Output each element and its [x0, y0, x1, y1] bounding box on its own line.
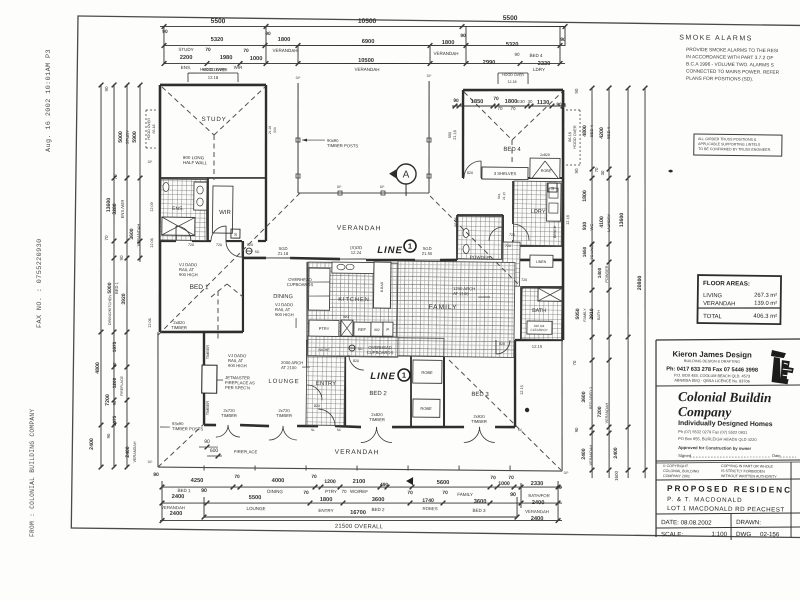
svg-text:FAX NO. : 0755220930: FAX NO. : 0755220930	[36, 238, 44, 328]
svg-text:1:100: 1:100	[712, 531, 728, 538]
svg-text:500: 500	[273, 127, 277, 133]
bath tub box	[527, 321, 552, 334]
svg-text:4100: 4100	[599, 216, 605, 228]
svg-text:90: 90	[106, 433, 111, 438]
svg-text:900 HIGH: 900 HIGH	[179, 272, 198, 277]
svg-text:DP: DP	[148, 460, 154, 464]
svg-text:VERANDAH: VERANDAH	[434, 51, 459, 56]
svg-text:406.3 m²: 406.3 m²	[753, 314, 777, 320]
svg-text:70: 70	[594, 167, 599, 172]
svg-text:HOOD OVER: HOOD OVER	[202, 67, 227, 72]
svg-text:DRAWN:: DRAWN:	[736, 519, 761, 526]
svg-text:TIMBER POSTS: TIMBER POSTS	[327, 143, 358, 148]
page border	[71, 16, 800, 538]
svg-text:1400: 1400	[597, 267, 602, 278]
verandah edge west	[156, 332, 160, 467]
hood over bracket west study	[144, 110, 147, 148]
svg-text:FAMILY: FAMILY	[428, 304, 457, 311]
svg-text:SL: SL	[311, 428, 315, 432]
wall laundry south	[513, 245, 563, 246]
floor areas box	[697, 275, 781, 324]
svg-text:TIMBER: TIMBER	[171, 325, 187, 330]
separator under kieron block	[656, 383, 800, 388]
svg-text:90: 90	[560, 37, 566, 43]
svg-text:1200: 1200	[112, 377, 117, 388]
top dimension row 2	[164, 40, 565, 51]
section marker A circle	[396, 164, 416, 184]
svg-text:3920: 3920	[121, 293, 127, 304]
svg-text:70: 70	[311, 474, 317, 480]
svg-text:267.3 m²: 267.3 m²	[754, 293, 777, 299]
svg-text:DP: DP	[296, 76, 302, 80]
svg-text:7200: 7200	[597, 406, 603, 417]
dimension chain vertical connectors bottom	[161, 481, 162, 521]
svg-text:COLONIAL BUILDING: COLONIAL BUILDING	[663, 469, 699, 473]
svg-text:1600: 1600	[614, 470, 619, 481]
svg-text:90: 90	[556, 485, 562, 491]
tiled floor laundry/lobby	[513, 181, 562, 246]
svg-text:7G LINEN: 7G LINEN	[590, 242, 594, 259]
svg-text:90: 90	[162, 29, 168, 35]
wall lounge west	[203, 332, 206, 425]
svg-text:1800: 1800	[582, 190, 588, 202]
tiled floor gallery strip	[345, 337, 444, 356]
svg-text:90: 90	[574, 88, 579, 94]
svg-text:820: 820	[314, 404, 320, 408]
svg-text:3 SHELVES: 3 SHELVES	[494, 171, 517, 176]
separator under colonial block	[656, 458, 800, 463]
svg-text:1675: 1675	[112, 341, 117, 352]
svg-text:2400: 2400	[531, 516, 544, 522]
svg-text:21.18: 21.18	[278, 251, 289, 256]
door bed4	[464, 161, 481, 178]
svg-text:DINING: DINING	[267, 489, 283, 494]
svg-text:12.09: 12.09	[150, 202, 154, 212]
svg-text:TOTAL: TOTAL	[703, 314, 723, 320]
svg-text:HOOD OVER: HOOD OVER	[147, 118, 151, 140]
wall bath south	[515, 339, 563, 340]
svg-text:4000: 4000	[272, 478, 285, 484]
svg-text:BUILDING DESIGN & DRAFTING: BUILDING DESIGN & DRAFTING	[684, 359, 740, 364]
svg-text:AT 2100: AT 2100	[453, 291, 469, 296]
svg-text:5500: 5500	[249, 495, 262, 501]
svg-text:ENS.: ENS.	[172, 206, 184, 212]
svg-text:VERANDAH: VERANDAH	[133, 441, 137, 462]
svg-text:VERANDAH: VERANDAH	[525, 509, 549, 514]
verandah edge south	[158, 466, 562, 473]
svg-text:Kieron James Design: Kieron James Design	[672, 350, 752, 360]
svg-text:Colonial Buildin: Colonial Buildin	[678, 389, 772, 405]
svg-text:PROPOSED RESIDENC: PROPOSED RESIDENC	[667, 484, 792, 495]
smoke alarm S box wir	[231, 229, 240, 238]
svg-text:1: 1	[408, 242, 412, 251]
tiled floor kitchen lower strip	[308, 336, 398, 357]
svg-text:21.15: 21.15	[502, 192, 506, 200]
svg-text:5500: 5500	[211, 18, 226, 25]
svg-text:POWDER: POWDER	[470, 255, 491, 260]
svg-text:2400: 2400	[613, 447, 619, 458]
svg-text:FAMILY: FAMILY	[583, 308, 587, 322]
smoke detector SD kitchen	[349, 345, 355, 351]
title block top border	[656, 337, 800, 342]
wall west outer (study/ens/bed1)	[157, 85, 163, 332]
bottom dimension row 2	[162, 498, 562, 508]
svg-text:21.18: 21.18	[453, 130, 457, 140]
title block left border	[653, 340, 658, 537]
svg-text:SD: SD	[255, 250, 260, 254]
svg-text:ENS./WIR: ENS./WIR	[120, 200, 125, 219]
verandah roof edge top-left	[297, 83, 300, 193]
linen cupboard	[530, 255, 553, 267]
svg-text:TIMBER: TIMBER	[206, 345, 210, 360]
wall bath north	[521, 286, 563, 287]
svg-text:3600: 3600	[372, 497, 385, 503]
svg-text:3600: 3600	[581, 391, 587, 402]
top dimension row 3	[164, 58, 565, 69]
ens wc	[163, 182, 169, 191]
bottom dimension row 3 (16700)	[204, 513, 517, 521]
svg-text:LINE: LINE	[370, 371, 396, 382]
svg-text:5500: 5500	[503, 15, 518, 22]
svg-text:70: 70	[205, 47, 211, 53]
entry front door	[318, 409, 335, 426]
svg-text:90: 90	[204, 439, 210, 445]
svg-text:820: 820	[467, 171, 473, 175]
bed4 shelves box	[482, 167, 528, 180]
powder wc and basin	[463, 228, 469, 237]
kitchen fridge space	[354, 322, 371, 336]
svg-text:90: 90	[112, 400, 117, 405]
svg-text:CUPBOARDS: CUPBOARDS	[287, 282, 314, 287]
door ens	[176, 226, 191, 241]
left dimension chain lines	[96, 84, 106, 468]
svg-text:1650: 1650	[582, 246, 587, 257]
svg-text:7200: 7200	[105, 394, 111, 406]
fireplace box	[202, 365, 217, 393]
tiled floor hall near linen	[503, 242, 521, 286]
svg-text:12.06: 12.06	[150, 238, 154, 248]
svg-text:Signed: Signed	[678, 453, 692, 458]
svg-text:DINING/KITCHEN: DINING/KITCHEN	[108, 295, 112, 326]
svg-text:2400: 2400	[89, 438, 95, 450]
svg-text:70: 70	[243, 48, 249, 54]
bottom arrow marker	[406, 477, 413, 485]
svg-text:DP: DP	[427, 74, 433, 78]
hood over bracket east	[566, 109, 580, 111]
door bed1	[226, 241, 242, 257]
svg-text:70: 70	[490, 475, 496, 481]
bed4 robe	[530, 158, 560, 178]
svg-text:TIMBER: TIMBER	[276, 413, 292, 418]
svg-text:ENS.: ENS.	[181, 65, 192, 70]
svg-text:TIMBER: TIMBER	[369, 417, 385, 422]
svg-text:WITHOUT WRITTEN AUTHORITY: WITHOUT WRITTEN AUTHORITY	[721, 474, 777, 479]
svg-text:LOUNGE: LOUNGE	[268, 379, 299, 385]
svg-text:5320: 5320	[506, 42, 519, 48]
dimension chain vertical connectors top	[162, 26, 165, 64]
svg-text:WC: WC	[589, 224, 594, 231]
svg-text:70: 70	[493, 96, 499, 102]
roof valley through bed3 to corner	[448, 360, 563, 470]
svg-text:4800: 4800	[582, 125, 588, 137]
svg-text:139.0 m²: 139.0 m²	[754, 301, 777, 307]
kieron james logo glyph	[771, 350, 794, 384]
svg-text:POWDER: POWDER	[605, 265, 609, 282]
separator above proposed residence	[656, 477, 800, 482]
svg-text:90: 90	[574, 427, 579, 432]
svg-text:1850: 1850	[471, 99, 484, 105]
tiled floor kitchen	[307, 262, 398, 337]
verandah roof edge top-middle	[298, 191, 429, 194]
glass door panes on front wall	[266, 257, 290, 260]
svg-text:2400: 2400	[170, 511, 183, 517]
bed2 robe lower	[413, 399, 440, 417]
wall house east lower (bed3)	[514, 340, 516, 427]
tiled floor family	[397, 261, 515, 358]
wall study east	[264, 85, 268, 241]
kitchen pantry2	[383, 322, 393, 336]
svg-text:12.18: 12.18	[508, 80, 517, 84]
right dimension chain lines	[587, 88, 597, 478]
svg-text:3600: 3600	[474, 499, 487, 505]
svg-text:SCALE:: SCALE:	[661, 531, 683, 538]
svg-text:4250: 4250	[191, 478, 204, 484]
svg-text:2400: 2400	[125, 446, 131, 457]
svg-text:2400: 2400	[581, 448, 587, 459]
svg-text:Aug. 16 2002 10:01AM P3: Aug. 16 2002 10:01AM P3	[45, 49, 53, 152]
svg-text:VERANDAH: VERANDAH	[335, 449, 380, 457]
svg-text:5050: 5050	[575, 308, 581, 319]
svg-text:ENTRY: ENTRY	[316, 381, 336, 387]
wall bed1 east	[242, 241, 244, 332]
verandah edge east	[560, 340, 564, 471]
svg-text:PTRY: PTRY	[325, 489, 337, 494]
roof ridge bed1	[211, 284, 227, 298]
svg-text:SMOKE ALARMS: SMOKE ALARMS	[679, 34, 753, 42]
svg-text:90: 90	[460, 33, 466, 39]
svg-text:STUDY: STUDY	[178, 47, 193, 52]
svg-text:LINE: LINE	[377, 245, 403, 256]
svg-text:2100: 2100	[353, 479, 366, 485]
svg-text:1000: 1000	[498, 481, 510, 487]
svg-text:WO: WO	[343, 315, 349, 319]
svg-text:VERANDAH: VERANDAH	[589, 444, 593, 465]
svg-text:VERANDAH: VERANDAH	[136, 224, 141, 247]
svg-text:6900: 6900	[362, 39, 375, 45]
svg-text:BED 3: BED 3	[473, 508, 487, 513]
wall robes east / bed3 west	[443, 355, 445, 427]
svg-text:4800: 4800	[95, 362, 101, 374]
svg-text:FLOOR AREAS:: FLOOR AREAS:	[703, 280, 750, 288]
svg-text:720: 720	[505, 244, 511, 248]
svg-text:70: 70	[497, 106, 503, 111]
svg-text:CUPBOARDS: CUPBOARDS	[367, 350, 394, 355]
svg-text:1740: 1740	[422, 498, 434, 504]
svg-text:Approved for Construction by o: Approved for Construction by owner	[678, 445, 751, 451]
door bed2 north	[349, 355, 364, 370]
svg-text:2400: 2400	[532, 500, 545, 506]
svg-text:SVL: SVL	[497, 193, 501, 199]
svg-text:DP: DP	[337, 185, 343, 189]
wall kitchen/entry north-south stub	[306, 262, 308, 340]
bed4 internal dimension row	[452, 105, 566, 108]
wall bed4 south with door gap	[463, 177, 464, 179]
svg-text:66.96: 66.96	[454, 217, 458, 227]
svg-text:30: 30	[528, 99, 533, 104]
svg-text:VERANDAH: VERANDAH	[273, 48, 298, 53]
svg-text:3280: 3280	[112, 203, 118, 214]
svg-text:Date: Date	[772, 453, 781, 458]
svg-text:P. & T. MACDONALD: P. & T. MACDONALD	[667, 496, 743, 504]
tiled floor ens	[160, 179, 207, 241]
svg-text:TIMBER: TIMBER	[471, 419, 487, 424]
svg-text:5600: 5600	[437, 480, 450, 486]
wall laundry west	[513, 181, 514, 224]
svg-text:E30: E30	[517, 99, 525, 104]
wall house front (verandah side) with glass doors	[243, 256, 266, 259]
separator above date row	[656, 511, 800, 516]
french doors bed3	[464, 427, 480, 443]
svg-text:1800: 1800	[442, 40, 455, 46]
kitchen wall oven	[371, 322, 383, 336]
svg-text:STUDY: STUDY	[125, 130, 130, 145]
svg-text:Ph: 0417 633 278 Fax 07 5446 3: Ph: 0417 633 278 Fax 07 5446 3998	[666, 366, 758, 373]
kitchen corner cabinet with X	[341, 320, 353, 336]
svg-text:90: 90	[201, 488, 207, 494]
svg-text:DP: DP	[564, 471, 570, 475]
wall powder east	[502, 215, 503, 260]
ens shower box	[162, 217, 195, 235]
svg-text:TIMBER: TIMBER	[221, 413, 237, 418]
svg-text:STUDY: STUDY	[202, 116, 227, 123]
tiled floor entry	[306, 341, 345, 425]
svg-text:550: 550	[448, 132, 452, 138]
svg-text:FAMILY: FAMILY	[457, 492, 473, 497]
svg-text:DP: DP	[380, 185, 386, 189]
svg-text:70: 70	[234, 474, 240, 480]
wall bed1 north with door openings	[160, 240, 176, 243]
bottom dimension row 4 (21500 overall)	[160, 515, 562, 525]
svg-text:BED 3: BED 3	[471, 392, 489, 398]
svg-text:WIR: WIR	[234, 65, 244, 70]
svg-text:BED 2/BED 3: BED 2/BED 3	[589, 387, 593, 409]
svg-text:BED 1: BED 1	[177, 488, 191, 493]
svg-text:4200: 4200	[599, 127, 605, 139]
bath shower box	[538, 288, 562, 301]
svg-text:70: 70	[104, 235, 109, 241]
svg-text:66.18: 66.18	[568, 132, 572, 142]
laundry tub bench	[547, 183, 561, 221]
svg-text:490: 490	[380, 482, 388, 488]
svg-text:KITCHEN: KITCHEN	[338, 297, 370, 303]
kitchen island bench	[373, 262, 391, 308]
svg-text:NICHE: NICHE	[318, 348, 330, 352]
svg-text:2200: 2200	[180, 55, 193, 61]
svg-text:Individually Designed Homes: Individually Designed Homes	[678, 420, 773, 428]
svg-text:S: S	[551, 186, 554, 191]
wall house east upper	[560, 90, 566, 340]
svg-text:1675: 1675	[112, 415, 117, 426]
svg-text:TIMBER: TIMBER	[206, 401, 210, 416]
svg-text:BED 1: BED 1	[114, 281, 119, 294]
svg-text:720: 720	[509, 233, 515, 237]
svg-text:600: 600	[210, 448, 219, 454]
svg-text:DINING: DINING	[273, 294, 293, 300]
roof gable study	[161, 87, 214, 135]
svg-text:3600: 3600	[129, 228, 135, 239]
svg-text:VERANDAH: VERANDAH	[605, 402, 609, 423]
svg-text:90: 90	[104, 86, 109, 92]
svg-text:20800: 20800	[637, 276, 643, 291]
wall robes west	[410, 355, 412, 427]
wir wardrobe shelf outline	[212, 186, 233, 233]
svg-text:TIMBER POSTS: TIMBER POSTS	[172, 426, 203, 431]
wall ens/wir divider	[207, 178, 209, 241]
wall entry east / bed2 west	[344, 355, 346, 427]
ens vanity	[194, 182, 207, 210]
svg-text:S: S	[234, 232, 237, 237]
svg-text:WIR: WIR	[219, 210, 231, 216]
svg-text:90: 90	[556, 102, 562, 108]
svg-text:© COPYRIGHT: © COPYRIGHT	[663, 464, 689, 468]
svg-text:FIREPLACE: FIREPLACE	[120, 375, 124, 396]
svg-text:13600: 13600	[619, 213, 625, 228]
svg-text:SC: SC	[337, 428, 342, 432]
door bath	[496, 340, 510, 354]
svg-text:LIVING: LIVING	[703, 293, 723, 299]
svg-text:5000: 5000	[107, 282, 113, 293]
svg-text:LDRY: LDRY	[533, 67, 545, 72]
svg-text:70: 70	[407, 490, 413, 496]
svg-text:720: 720	[216, 243, 222, 247]
svg-text:CLEARPCP: CLEARPCP	[530, 328, 547, 332]
svg-text:CONNECTED TO MAINS POWER. REF: CONNECTED TO MAINS POWER. REFER	[686, 69, 780, 76]
roof valley long diagonal left	[158, 191, 300, 337]
kitchen pantry bench row	[309, 320, 339, 336]
svg-text:12.18: 12.18	[208, 75, 219, 80]
bed2 robe upper	[413, 360, 442, 383]
wall bed4 west	[462, 90, 464, 178]
wall entry west with arch opening	[306, 340, 309, 367]
svg-text:ALL GIRDER TRUSS POSITIONS &: ALL GIRDER TRUSS POSITIONS &	[698, 137, 757, 142]
svg-text:HALF WALL: HALF WALL	[183, 160, 208, 165]
fax header timestamp	[29, 49, 53, 537]
svg-text:FIREPLACE: FIREPLACE	[234, 449, 258, 454]
svg-text:SC: SC	[518, 428, 523, 432]
roof gable bed4	[463, 92, 512, 140]
svg-text:66.18: 66.18	[152, 124, 156, 133]
truss note box	[694, 134, 782, 156]
svg-text:12.18: 12.18	[566, 215, 570, 225]
svg-text:1800: 1800	[278, 37, 291, 43]
svg-text:VERANDAH: VERANDAH	[703, 301, 735, 307]
svg-text:902: 902	[374, 328, 380, 332]
svg-text:5900: 5900	[132, 131, 138, 143]
svg-text:ENTRY: ENTRY	[318, 508, 333, 513]
svg-text:90: 90	[119, 255, 124, 261]
svg-text:30: 30	[600, 170, 605, 175]
svg-text:1: 1	[402, 371, 406, 380]
svg-text:BED 4: BED 4	[529, 53, 543, 58]
kitchen top bench with sink	[332, 262, 374, 274]
svg-text:16700: 16700	[350, 510, 366, 516]
french doors bed2	[361, 427, 377, 443]
svg-text:LOUNGE: LOUNGE	[247, 506, 266, 511]
note hood over study bracket	[188, 72, 238, 73]
svg-text:LDRY: LDRY	[531, 209, 546, 215]
svg-text:10500: 10500	[358, 18, 377, 25]
svg-text:900 HIGH: 900 HIGH	[275, 312, 294, 317]
